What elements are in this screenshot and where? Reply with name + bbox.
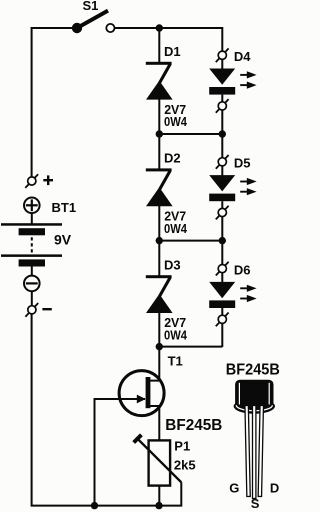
- battery minus sign (terminal polarity): [42, 308, 51, 310]
- svg-text:G: G: [229, 480, 239, 495]
- wire: interstage link 2: [159, 240, 222, 242]
- battery BT1 negative pole circle: [24, 276, 40, 292]
- LED D5 light arrows: [240, 178, 256, 195]
- wire: zener column D2-D3 link: [158, 206, 160, 276]
- svg-text:2k5: 2k5: [174, 457, 196, 472]
- node: zener/LED link junction 1 right: [219, 130, 226, 137]
- wire: zener column D1 top lead: [158, 27, 160, 63]
- battery plus sign (terminal polarity): [43, 179, 53, 181]
- node: battery negative terminal pin: [25, 303, 38, 317]
- wire: D6 cathode to pin: [221, 308, 223, 315]
- svg-text:D2: D2: [164, 151, 181, 166]
- wire: LED column top lead: [221, 27, 223, 52]
- battery BT1 cell 1 short plate: [19, 228, 45, 235]
- switch S1 pole contact: [72, 23, 82, 33]
- package TO-92 body: [234, 380, 275, 414]
- wire: cell 2 to negative pole circle: [31, 267, 33, 277]
- LED D5 body (triangle + cathode bar): [209, 175, 235, 201]
- node: zener/LED link junction 1 left: [156, 130, 163, 137]
- svg-text:S: S: [251, 496, 260, 511]
- battery dashed link between cells: [31, 237, 33, 253]
- battery BT1 cell 1 long plate: [1, 223, 62, 226]
- LED D4 light arrows: [240, 71, 256, 88]
- node: LED D5 bottom terminal pin: [216, 206, 229, 220]
- LED D4 body (triangle + cathode bar): [209, 69, 235, 95]
- svg-text:BF245B: BF245B: [165, 417, 222, 434]
- node: LED D6 top terminal pin: [216, 262, 229, 276]
- svg-text:BF245B: BF245B: [226, 362, 280, 379]
- package pin D (drain leg): [258, 405, 263, 496]
- wire: top rail right segment (S1 to LED column): [115, 27, 223, 29]
- svg-text:9V: 9V: [54, 232, 72, 248]
- node: LED D4 bottom terminal pin: [216, 99, 229, 113]
- wire: D6 pin to anode: [221, 273, 223, 284]
- node: LED D6 bottom terminal pin: [216, 313, 229, 327]
- svg-text:0W4: 0W4: [164, 221, 188, 236]
- zener diode D2 (2V7 0W4): [146, 168, 173, 206]
- wire: D4 cathode to pin: [221, 95, 223, 102]
- node: battery positive terminal pin: [25, 174, 38, 188]
- node: zener/LED link junction 2 right: [219, 237, 226, 244]
- wire: interstage link 1 (zeners to LEDs): [159, 133, 222, 135]
- potentiometer P1 body: [149, 440, 171, 485]
- LED D6 light arrows: [240, 285, 256, 302]
- wire: D5 pin to anode: [221, 166, 223, 177]
- wire: battery column lower + bottom rail + wiper riser: [32, 314, 182, 506]
- battery BT1 positive pole circle: [24, 198, 40, 214]
- node: zener/LED link junction 2 left: [156, 237, 163, 244]
- node: P1 bottom junction on bottom rail: [155, 502, 162, 509]
- switch S1 throw contact: [106, 24, 114, 32]
- wire: top rail left segment (battery to S1): [31, 27, 77, 29]
- svg-text:P1: P1: [174, 438, 190, 453]
- wire: LED column link stage 2-3: [221, 217, 223, 265]
- package pin G (gate leg): [245, 405, 250, 496]
- zener diode D3 (2V7 0W4): [146, 275, 173, 313]
- wire: D4 pin to anode: [221, 59, 223, 70]
- wire: zener column D1-D2 link: [158, 99, 160, 169]
- wire: P1 bottom lead: [158, 486, 160, 506]
- node: anode bus junction at T1 drain: [156, 343, 163, 350]
- node: LED D5 top terminal pin: [216, 155, 229, 169]
- node: junction top rail / zener column: [156, 24, 163, 31]
- svg-text:D6: D6: [234, 263, 251, 278]
- svg-text:D3: D3: [164, 257, 181, 272]
- wire: pole circle to first cell: [31, 213, 33, 224]
- potentiometer P1 wiper arrow: [134, 435, 182, 483]
- switch S1 lever: [77, 11, 108, 28]
- wire: gate return (T1 gate to bottom rail): [95, 399, 146, 506]
- svg-text:D1: D1: [164, 44, 181, 59]
- wire: zener column D3 to T1 drain: [158, 312, 160, 347]
- svg-text:D: D: [270, 480, 279, 495]
- node: gate return junction on bottom rail: [91, 502, 98, 509]
- zener diode D1 (2V7 0W4): [146, 62, 173, 100]
- wire: D5 cathode to pin: [221, 201, 223, 208]
- svg-text:0W4: 0W4: [164, 328, 188, 343]
- svg-text:0W4: 0W4: [164, 114, 188, 129]
- svg-text:D4: D4: [234, 49, 251, 64]
- svg-text:BT1: BT1: [52, 200, 77, 215]
- transistor T1 (JFET BF245B): [119, 347, 164, 441]
- package pin S (source leg): [253, 406, 256, 499]
- wire: negative pole to terminal pin: [31, 291, 33, 306]
- LED D6 body (triangle + cathode bar): [209, 282, 235, 308]
- node: LED D4 top terminal pin: [216, 48, 229, 62]
- svg-text:T1: T1: [168, 353, 183, 368]
- battery BT1 cell 2 long plate: [1, 254, 62, 257]
- wire: battery column upper: [31, 27, 33, 177]
- wire: LED column link stage 1-2: [221, 110, 223, 158]
- battery BT1 cell 2 short plate: [19, 259, 45, 266]
- wire: bottom link (anode bus to T1 drain): [159, 346, 222, 348]
- wire: LED column D6 to bottom link: [221, 323, 223, 347]
- svg-text:D5: D5: [234, 156, 251, 171]
- svg-text:S1: S1: [83, 0, 99, 13]
